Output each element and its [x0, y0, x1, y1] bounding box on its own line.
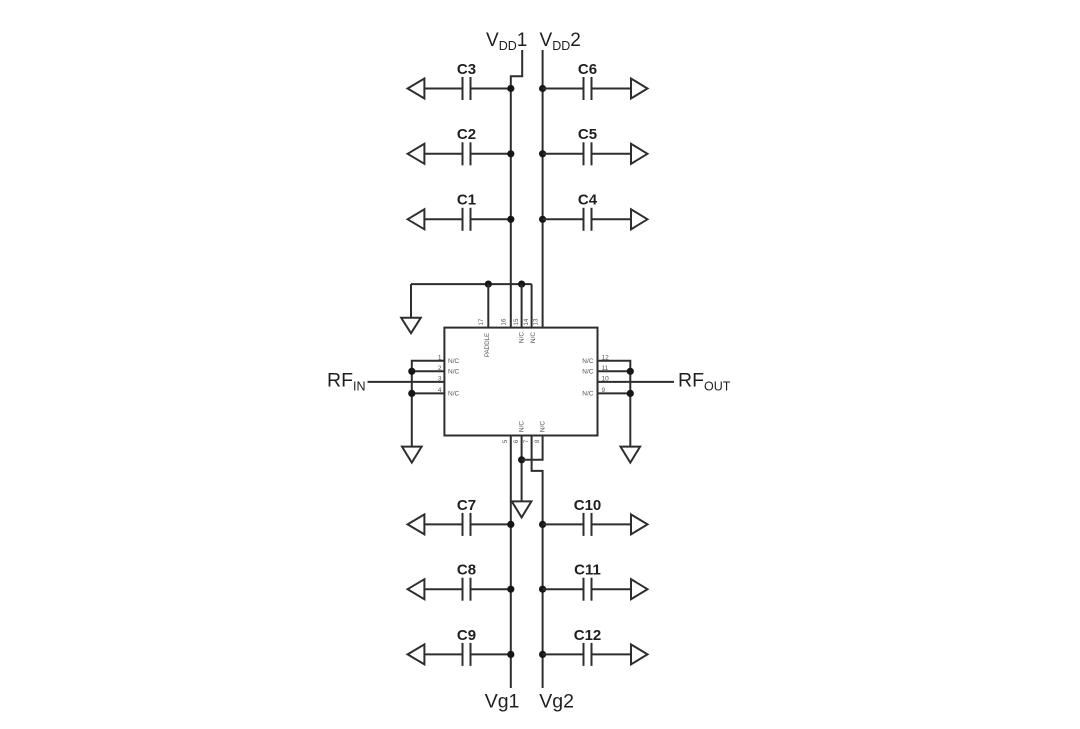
net label VDD2	[540, 30, 581, 53]
svg-text:N/C: N/C	[519, 332, 526, 344]
wire ground rail (top)	[411, 283, 532, 285]
capacitor C7	[463, 513, 471, 536]
pin number 17	[479, 318, 485, 325]
pin number 15	[514, 318, 520, 325]
wire C9 right	[471, 653, 511, 655]
wire pin 7 / Vg2 rail	[532, 436, 543, 689]
svg-text:C7: C7	[457, 497, 476, 514]
wire C4 right	[592, 218, 632, 220]
svg-text:C3: C3	[457, 61, 476, 78]
wire C9 left	[424, 653, 462, 655]
wire pin 15	[521, 284, 523, 328]
wire VDD1 rail (jog to pin 16)	[511, 50, 522, 328]
terminal arrow left of C7	[408, 514, 425, 534]
net label VDD1	[486, 30, 527, 53]
svg-text:Vg2: Vg2	[539, 691, 574, 713]
junction pin11/right rail	[627, 368, 634, 375]
wire C12 left	[543, 653, 584, 655]
junction pin6/pin8	[518, 456, 525, 463]
junction C3/rail	[507, 85, 514, 92]
wire C4 left	[543, 218, 584, 220]
junction C6/rail	[539, 85, 546, 92]
op-amp U1 (amplifier IC body)	[444, 328, 597, 436]
wire RF_OUT (pin 10)	[598, 381, 675, 383]
wire C2 right	[471, 153, 511, 155]
terminal arrow right of C12	[631, 644, 648, 664]
wire C1 right	[471, 218, 511, 220]
pin number 14	[524, 318, 530, 325]
label C3	[457, 61, 476, 78]
svg-text:C12: C12	[574, 627, 602, 644]
pin number 5	[503, 439, 509, 443]
wire C11 right	[592, 588, 632, 590]
wire C8 right	[471, 588, 511, 590]
junction C4/rail	[539, 216, 546, 223]
terminal arrow right of C4	[631, 209, 648, 229]
wire pin 5 / Vg1 rail	[510, 436, 512, 689]
pin label N/C (pin 4)	[448, 391, 460, 398]
wire pin 4 stub	[412, 392, 445, 394]
capacitor C11	[584, 578, 592, 601]
pin number 11	[602, 365, 609, 372]
wire pin 6 stub	[521, 436, 523, 502]
svg-text:C6: C6	[578, 61, 597, 78]
junction C12/rail	[539, 651, 546, 658]
pin label N/C (pin 11)	[582, 369, 594, 376]
svg-text:13: 13	[533, 318, 539, 325]
svg-text:C8: C8	[457, 562, 476, 579]
ground symbol (top left)	[401, 318, 421, 333]
terminal arrow right of C10	[631, 514, 648, 534]
junction C1/rail	[507, 216, 514, 223]
label C11	[574, 562, 601, 579]
svg-text:N/C: N/C	[519, 421, 526, 433]
pin number 8	[535, 439, 541, 443]
capacitor C5	[584, 142, 592, 165]
net label Vg2	[539, 691, 574, 713]
junction C5/rail	[539, 150, 546, 157]
capacitor C8	[463, 578, 471, 601]
net label Vg1	[485, 691, 520, 713]
pin label N/C (pin 15)	[519, 332, 526, 344]
svg-text:N/C: N/C	[448, 391, 460, 398]
junction C7/rail	[507, 521, 514, 528]
wire C2 left	[424, 153, 462, 155]
wire C10 right	[592, 523, 632, 525]
wire C3 left	[424, 88, 462, 90]
pin label N/C (pin 1)	[448, 358, 460, 365]
pin label N/C (pin 2)	[448, 369, 460, 376]
junction pin17/ground	[485, 281, 492, 288]
wire C7 left	[424, 523, 462, 525]
svg-text:C4: C4	[578, 192, 598, 209]
pin label PADDLE (pin 17)	[484, 333, 491, 357]
wire C5 right	[592, 153, 632, 155]
wire pin 2 stub	[412, 370, 445, 372]
label C2	[457, 126, 476, 143]
label C6	[578, 61, 597, 78]
svg-text:N/C: N/C	[582, 391, 594, 398]
pin number 2	[438, 365, 442, 372]
wire C6 left	[543, 88, 584, 90]
label C5	[578, 126, 597, 143]
wire C8 left	[424, 588, 462, 590]
wire C1 left	[424, 218, 462, 220]
junction C10/rail	[539, 521, 546, 528]
pin number 6	[514, 439, 520, 443]
pin number 10	[602, 376, 610, 383]
terminal arrow right of C5	[631, 144, 648, 164]
svg-text:14: 14	[524, 318, 530, 325]
junction pin2/left rail	[408, 368, 415, 375]
svg-text:N/C: N/C	[540, 421, 547, 433]
label C12	[574, 627, 602, 644]
label C4	[578, 192, 598, 209]
svg-text:C5: C5	[578, 126, 597, 143]
svg-text:Vg1: Vg1	[485, 691, 520, 713]
pin number 4	[438, 387, 442, 394]
label C7	[457, 497, 476, 514]
capacitor C9	[463, 643, 471, 666]
wire pin 1 stub	[412, 361, 445, 447]
junction pin9/right rail	[627, 390, 634, 397]
pin number 9	[602, 387, 606, 394]
junction C2/rail	[507, 150, 514, 157]
svg-text:C10: C10	[574, 497, 602, 514]
node RF_IN label	[327, 369, 366, 393]
svg-text:N/C: N/C	[582, 358, 594, 365]
svg-text:15: 15	[514, 318, 520, 325]
svg-text:N/C: N/C	[582, 369, 594, 376]
pin number 12	[602, 355, 610, 362]
ground symbol (bottom center)	[512, 501, 532, 517]
wire pin 14	[531, 284, 533, 328]
terminal arrow left of C2	[408, 144, 425, 164]
capacitor C3	[463, 77, 471, 100]
terminal arrow left of C8	[408, 579, 425, 599]
junction C11/rail	[539, 586, 546, 593]
pin label N/C (pin 9)	[582, 391, 594, 398]
svg-text:C2: C2	[457, 126, 476, 143]
capacitor C1	[463, 208, 471, 231]
label C9	[457, 627, 476, 644]
pin label N/C (pin 12)	[582, 358, 594, 365]
junction pin15/ground	[518, 281, 525, 288]
junction C9/rail	[507, 651, 514, 658]
junction pin4/left rail	[408, 390, 415, 397]
pin label N/C (pin 14)	[530, 332, 537, 344]
terminal arrow right of C11	[631, 579, 648, 599]
svg-text:C9: C9	[457, 627, 476, 644]
wire C5 left	[543, 153, 584, 155]
svg-text:N/C: N/C	[448, 358, 460, 365]
svg-text:PADDLE: PADDLE	[484, 333, 491, 357]
pin label N/C (pin 8)	[540, 421, 547, 433]
capacitor C10	[584, 513, 592, 536]
capacitor C6	[584, 77, 592, 100]
wire VDD2 rail (to pin 13)	[542, 50, 544, 328]
svg-text:C1: C1	[457, 192, 476, 209]
wire RF_IN (pin 3)	[368, 381, 445, 383]
wire ground drop (left)	[410, 284, 412, 318]
terminal arrow left of C3	[408, 79, 425, 99]
wire pin 17	[487, 284, 489, 328]
wire C10 left	[543, 523, 584, 525]
capacitor C4	[584, 208, 592, 231]
svg-text:17: 17	[479, 318, 485, 325]
junction C8/rail	[507, 586, 514, 593]
capacitor C2	[463, 142, 471, 165]
wire C11 left	[543, 588, 584, 590]
label C8	[457, 562, 476, 579]
pin label N/C (pin 6)	[519, 421, 526, 433]
wire C12 right	[592, 653, 632, 655]
svg-text:N/C: N/C	[448, 369, 460, 376]
wire C7 right	[471, 523, 511, 525]
wire pin 9 stub	[598, 392, 631, 394]
wire C6 right	[592, 88, 632, 90]
capacitor C12	[584, 643, 592, 666]
label C10	[574, 497, 602, 514]
pin number 13	[533, 318, 539, 325]
pin number 3	[438, 376, 442, 383]
terminal arrow left of C9	[408, 644, 425, 664]
terminal arrow left of C1	[408, 209, 425, 229]
svg-text:N/C: N/C	[530, 332, 537, 344]
svg-text:C11: C11	[574, 562, 601, 579]
wire pin 8 stub	[522, 436, 543, 460]
terminal arrow right of C6	[631, 79, 648, 99]
ground symbol (left)	[402, 447, 422, 463]
pin number 1	[438, 355, 442, 362]
wire C3 right	[471, 88, 511, 90]
svg-text:16: 16	[502, 318, 508, 325]
wire pin 12 stub	[598, 361, 631, 447]
wire pin 11 stub	[598, 370, 631, 372]
label C1	[457, 192, 476, 209]
node RF_OUT label	[678, 369, 731, 393]
pin number 7	[524, 439, 530, 443]
ground symbol (right)	[621, 447, 641, 463]
pin number 16	[502, 318, 508, 325]
